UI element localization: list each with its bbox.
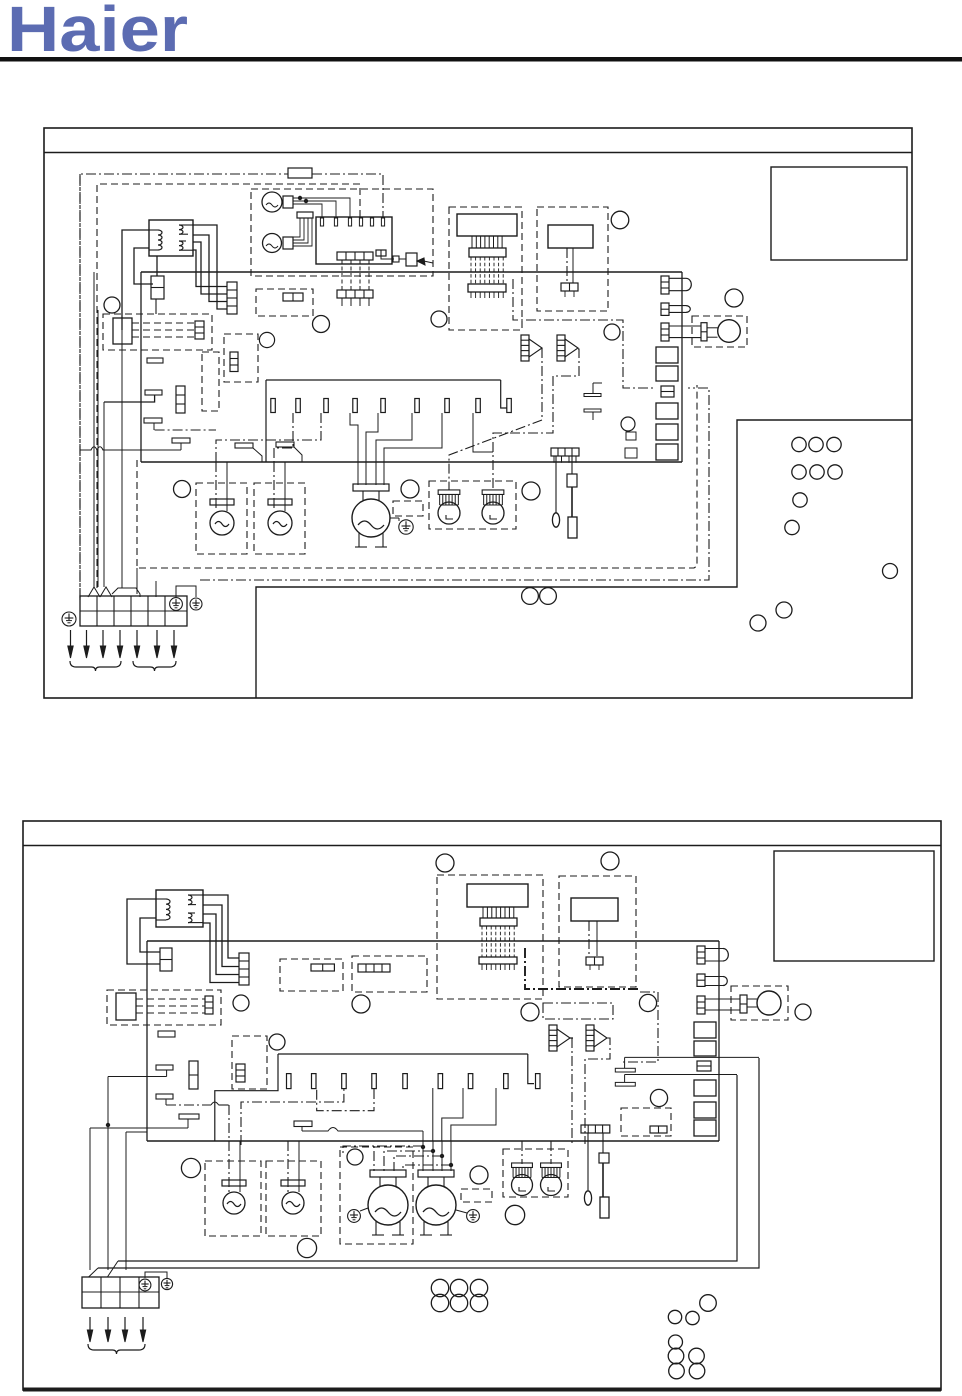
svg-text:Haier: Haier: [7, 0, 188, 65]
